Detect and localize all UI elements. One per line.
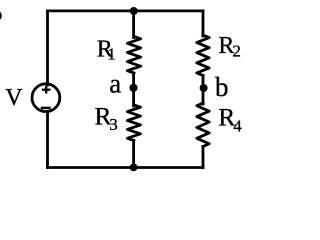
resistor R1 zigzag bbox=[127, 37, 140, 74]
wire left vertical upper bbox=[46, 11, 49, 85]
wire top horizontal bbox=[48, 9, 204, 12]
node a junction dot bbox=[129, 84, 137, 92]
voltage source V1 circle bbox=[32, 84, 60, 112]
svg-text:2: 2 bbox=[232, 42, 241, 61]
svg-text:b: b bbox=[215, 72, 229, 102]
svg-text:a: a bbox=[109, 69, 121, 99]
wire right branch between R2 and R4 bbox=[202, 76, 205, 105]
svg-text:V: V bbox=[5, 85, 23, 111]
svg-text:1: 1 bbox=[107, 45, 116, 64]
wire right branch upper bbox=[202, 11, 205, 36]
svg-text:3: 3 bbox=[109, 115, 118, 134]
resistor R2 zigzag bbox=[197, 35, 209, 76]
wire bottom horizontal bbox=[48, 166, 204, 169]
wire middle branch between R1 and R3 bbox=[132, 73, 135, 106]
svg-text:4: 4 bbox=[233, 116, 242, 135]
resistor R4 zigzag bbox=[197, 103, 209, 147]
junction dot bottom node bbox=[130, 164, 138, 172]
wire left vertical lower bbox=[46, 112, 49, 168]
resistor R3 zigzag bbox=[127, 105, 140, 141]
junction dot top node bbox=[130, 7, 138, 15]
plus sign of source bbox=[42, 86, 51, 94]
cropped figure label fragment at left edge bbox=[0, 12, 1, 20]
wire middle branch upper bbox=[132, 11, 135, 38]
node b junction dot bbox=[200, 84, 208, 92]
wire middle branch lower bbox=[132, 141, 135, 168]
minus sign of source bbox=[41, 107, 51, 110]
wire right branch lower bbox=[202, 147, 205, 168]
